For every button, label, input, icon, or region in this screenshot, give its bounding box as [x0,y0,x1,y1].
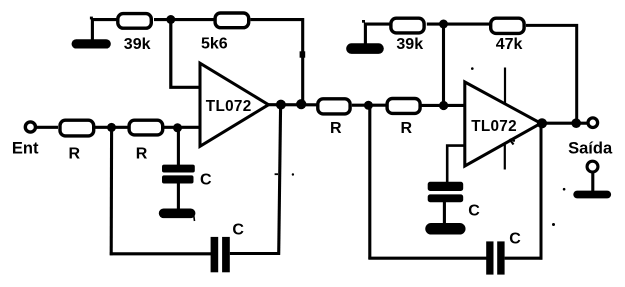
node A2 junction dot [439,20,448,29]
wire C3 to ground [443,202,446,224]
wire stage1 bottom left [110,252,211,255]
ground (stage 2 top, left of 39k) [352,43,379,54]
speck bottom right area [552,223,555,226]
wire 47k right to corner down to output row [526,25,577,122]
wire node A2 down to node C2 [442,24,445,106]
node A1 junction dot [166,15,175,24]
terminal Saida output circle [568,118,613,158]
wire node B2 down (stage2 left loop) [368,105,371,259]
wire stage2 bottom right [505,257,543,260]
node C2 junction dot [439,101,448,110]
speck near stage1 right loop 2 [292,173,294,175]
resistor R2 (stage 1) [129,120,163,162]
tick at ground1 wire corner [90,17,93,20]
svg-text:39k: 39k [124,36,151,53]
resistor R3 (stage 2 input) [318,99,350,137]
svg-text:R: R [330,120,342,137]
wire op-amp2 output row [538,122,588,125]
svg-text:C: C [232,221,244,238]
speck below Saida ground left [563,188,566,191]
wire ground2 up to top row [365,24,389,47]
wire 39k to 5k6 [154,18,214,21]
svg-text:C: C [509,231,521,248]
svg-text:R: R [69,145,81,162]
wire stage1 bottom right [230,252,280,255]
svg-text:C: C [200,171,212,188]
terminal Ent input circle [12,122,39,158]
resistor R1 (stage 1 input) [60,120,94,162]
wire R1 to R2 [95,126,129,129]
resistor 39k (stage 2) [391,18,424,53]
resistor 47k [491,18,524,53]
wire node A1 down to op-amp 1 inverting input [171,20,200,88]
speck near stage1 right loop [275,173,278,175]
svg-text:TL072: TL072 [206,98,252,115]
wire stage2 right loop up to output [540,123,543,259]
svg-text:47k: 47k [496,36,523,53]
wire 5k6 right to corner [251,20,303,105]
capacitor C1 (stage 1 shunt) [162,165,212,189]
minus dash mark (op-amp 2) [510,139,514,145]
svg-text:Ent: Ent [12,140,39,158]
wire node B1 down (stage1 left loop) [110,127,114,255]
terminal ground circle (below Saida) [577,161,607,194]
wire op-amp1 output row [266,103,317,106]
op-amp U2 TL072 [465,82,541,166]
svg-text:C: C [468,202,480,219]
wire ground1 up to top row [92,20,117,42]
node B1 junction dot [107,123,116,132]
wire 39k to 47k [427,23,491,26]
wire node C1 down to capacitor C1 [177,128,180,166]
resistor 5k6 [201,13,249,53]
wire stage2 bottom left [368,257,486,260]
node output1 junction dot [276,100,286,110]
wire R3 to R4 [352,104,387,107]
speck right of op-amp 2 [513,140,515,142]
ground (stage 1 top, left of 39k) [76,39,106,48]
svg-text:R: R [401,120,413,137]
wire R4 to op-amp 2 input [421,104,464,107]
svg-text:Saída: Saída [568,140,613,158]
svg-text:5k6: 5k6 [201,36,228,53]
resistor R4 (stage 2) [387,99,420,138]
capacitor C3 (stage 2 shunt) [428,182,481,220]
capacitor C4 (stage 2 feedback) [486,231,521,275]
svg-text:39k: 39k [396,36,423,53]
resistor 39k (stage 1) [118,14,152,53]
node feedback1 junction dot [296,99,306,109]
op-amp U1 TL072 [200,63,269,146]
ground (below C1) [164,210,195,221]
blob on feedback wire [300,51,306,57]
node C1 junction dot [173,123,182,132]
node output2 junction dot (apex) [537,118,547,128]
wire Ent to R1 [36,126,59,129]
power pin down (op-amp 2) [504,145,506,170]
node feedback2 junction dot [571,118,581,128]
power pin up (op-amp 2) [504,68,506,105]
wire C1 to ground [177,184,180,210]
speck above op-amp 2 [471,67,474,70]
capacitor C2 (stage 1 feedback) [211,221,245,272]
tick at ground2 wire corner [362,20,365,23]
node B2 junction dot [364,101,373,110]
wire stage1 right loop up to output [279,105,281,255]
svg-text:TL072: TL072 [471,118,517,135]
wire R2 to op-amp 1 non-inverting input [164,126,200,129]
ground (below C3) [431,223,460,235]
svg-text:R: R [136,145,148,162]
wire op-amp 2 lower input step to capacitor C3 [447,146,465,182]
